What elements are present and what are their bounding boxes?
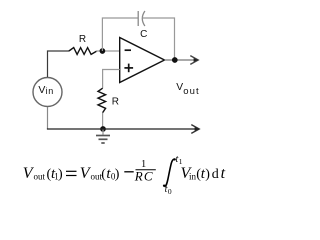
resistor R1 xyxy=(69,48,97,55)
node B junction dot (ground node) xyxy=(100,126,106,132)
svg-text:t: t xyxy=(221,165,226,182)
arrow bottom rail xyxy=(191,125,199,134)
svg-text:out: out xyxy=(183,86,200,97)
svg-text:RC: RC xyxy=(134,169,154,184)
ground xyxy=(96,129,110,143)
svg-text:0: 0 xyxy=(168,187,172,196)
op-amp U1 xyxy=(120,38,165,83)
wire Vin top to input net xyxy=(48,51,70,77)
svg-text:C: C xyxy=(140,29,147,40)
svg-text:d: d xyxy=(212,167,219,182)
wire ground net to bottom arrow xyxy=(47,128,198,130)
svg-text:R: R xyxy=(112,97,119,108)
op-amp non-inverting input symbol (plus) xyxy=(124,64,133,73)
label Vout xyxy=(176,82,199,97)
svg-text:): ) xyxy=(205,167,210,182)
resistor R2 xyxy=(98,88,106,113)
svg-text:out: out xyxy=(34,171,46,181)
svg-text:): ) xyxy=(115,167,120,182)
op-amp inverting input symbol (minus) xyxy=(125,49,131,51)
svg-text:): ) xyxy=(58,167,63,182)
wire Vin bottom to ground net xyxy=(47,107,49,129)
label Vin xyxy=(38,84,53,96)
svg-text:in: in xyxy=(46,86,54,96)
svg-text:V: V xyxy=(38,84,45,96)
svg-text:R: R xyxy=(79,34,86,45)
wire output xyxy=(165,59,197,61)
equation Vout(t1) = Vout(t0) - 1/RC integral xyxy=(23,154,226,196)
node C junction dot (output node) xyxy=(172,57,178,63)
wire R2 to ground net xyxy=(102,113,104,130)
arrow output xyxy=(190,56,198,65)
wire R1 to inverting input xyxy=(96,50,120,52)
node A junction dot (inverting input node) xyxy=(100,48,106,54)
wire non-inverting input xyxy=(103,70,120,89)
voltage source Vin xyxy=(33,78,62,107)
capacitor C1 xyxy=(138,11,145,26)
wire feedback left riser xyxy=(102,18,138,51)
wire capacitor to output riser xyxy=(142,18,174,60)
